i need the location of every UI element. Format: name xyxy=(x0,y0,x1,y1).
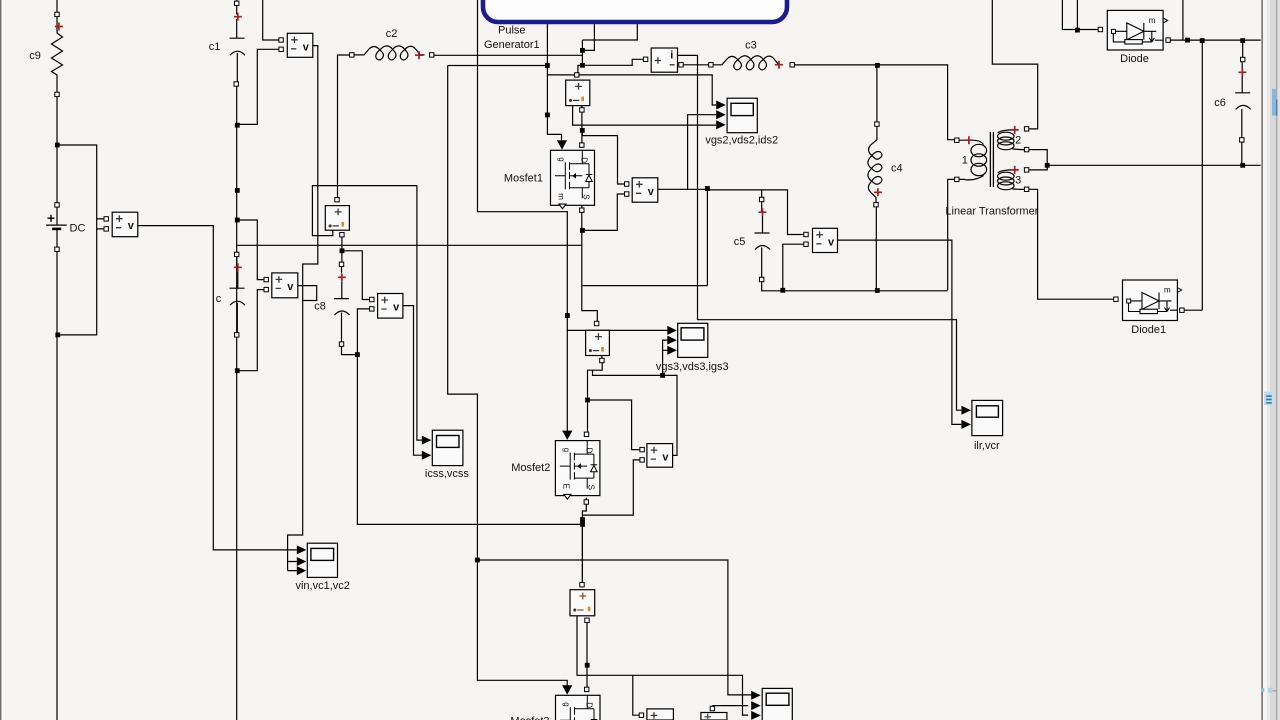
svg-text:c2: c2 xyxy=(386,28,398,40)
wire c9 to DC xyxy=(56,97,58,203)
svg-text:Diode: Diode xyxy=(1120,53,1149,65)
Mosfet2 box xyxy=(555,441,600,496)
svg-text:E: E xyxy=(561,484,570,489)
svg-text:g: g xyxy=(562,448,571,452)
inductor c4 vertical xyxy=(868,126,882,202)
voltmeter c8 box xyxy=(378,294,403,319)
svg-text:v: v xyxy=(128,220,135,232)
wire c voltmeter - loop xyxy=(237,290,264,371)
svg-text:icss,vcss: icss,vcss xyxy=(425,468,470,480)
svg-text:c3: c3 xyxy=(745,39,757,51)
wire top to c1 voltmeter + xyxy=(263,0,279,40)
wire x=447.7 down jog to 477.4 xyxy=(448,66,568,687)
svg-text:ilr,vcr: ilr,vcr xyxy=(974,440,1000,452)
svg-text:c8: c8 xyxy=(314,301,326,313)
wire vds2 vm - loop xyxy=(582,194,624,230)
capacitor c6 plates xyxy=(1235,93,1251,110)
c8 column below icss block xyxy=(341,237,343,262)
wire c6 column xyxy=(1241,41,1244,166)
svg-text:Linear Transformer: Linear Transformer xyxy=(945,206,1038,218)
svg-text:S: S xyxy=(586,485,595,490)
input arrows: scopes xyxy=(716,101,726,110)
wire c5 vm out to ilr in2 xyxy=(838,240,962,424)
bottom + meas block box xyxy=(570,590,595,616)
wire y=74.9 gate rail to vgs2 scope in1 xyxy=(547,75,716,105)
wire x=477.5 m-line from top xyxy=(478,0,568,431)
wire y=330.4 to vgs3 scope in1 xyxy=(567,329,669,331)
wire c4 bottom to rail xyxy=(875,207,877,291)
voltmeter glyphs: + - v (DC,c1,c,c8,c5,vds2,vds3,bottom) xyxy=(116,215,135,232)
column x=582.4 upper xyxy=(581,40,583,65)
svg-text:m: m xyxy=(557,193,566,200)
inductor c3 xyxy=(713,56,779,70)
svg-text:v: v xyxy=(393,302,400,314)
svg-text:c5: c5 xyxy=(734,236,746,248)
voltmeter c box xyxy=(272,273,298,298)
wire c1 top stub xyxy=(236,0,238,15)
wire c8 vm - loop xyxy=(357,309,582,525)
svg-text:c9: c9 xyxy=(29,50,41,62)
wire dot130 jog to vds2 vm + xyxy=(582,130,624,184)
svg-text:Mosfet2: Mosfet2 xyxy=(511,462,550,474)
transformer core xyxy=(990,132,993,187)
scope vgs2,vds2,ids2 xyxy=(727,98,757,133)
svg-text:m: m xyxy=(1164,286,1171,295)
svg-text:2: 2 xyxy=(1015,134,1021,146)
+- measurement blocks glyphs xyxy=(570,83,582,101)
svg-text:c6: c6 xyxy=(1214,97,1226,109)
inductor c2 xyxy=(338,54,350,57)
svg-text:Mosfet3: Mosfet3 xyxy=(510,716,549,720)
svg-text:g: g xyxy=(557,157,566,161)
wire bottom block top port column xyxy=(581,520,583,583)
wire w3 bottom to Diode1 xyxy=(1029,189,1114,299)
igs3 block bottom port path to M2 D xyxy=(588,356,603,433)
wire dot65 jog to vgs2 block top port xyxy=(578,65,583,72)
mosfet gate arrows (down) xyxy=(557,140,567,149)
scope Mosfet3 (bottom, clipped) xyxy=(762,688,792,720)
svg-text:3: 3 xyxy=(1015,174,1021,186)
svg-text:i: i xyxy=(670,50,673,62)
right scrollbar xyxy=(1261,0,1280,720)
wire c8 bottom jog xyxy=(342,346,358,354)
svg-text:c: c xyxy=(216,293,222,305)
svg-text:Pulse: Pulse xyxy=(498,24,526,36)
Diode1 box xyxy=(1123,280,1178,321)
mosfet1 S column xyxy=(582,147,598,321)
svg-text:v: v xyxy=(828,236,835,248)
DC source symbol xyxy=(46,225,66,229)
wire x=707.4 down and c5 feed xyxy=(707,189,804,286)
wire c node to c voltmeter + xyxy=(237,220,264,280)
wire center tap rail to right xyxy=(1047,164,1261,166)
wire stubs to DC voltmeter ports xyxy=(97,219,104,229)
svg-text:vgs3,vds3,igs3: vgs3,vds3,igs3 xyxy=(656,361,729,373)
wire c1 voltmeter output down to vin scope in2 xyxy=(288,46,318,571)
wire branch to bottom voltmeter xyxy=(633,675,639,715)
vgs2 meas block box xyxy=(566,80,590,106)
icss block loop to icss in1 xyxy=(312,186,421,441)
bottom small block xyxy=(701,713,727,720)
resistor c9 xyxy=(52,17,63,93)
transformer w1 coil xyxy=(959,140,984,144)
i-line from i-block to ilr in1 xyxy=(678,55,962,410)
Mosfet1 box xyxy=(551,150,595,205)
svg-text:D: D xyxy=(585,702,594,708)
wire c5 bottom rail xyxy=(762,282,948,291)
wire M3 scope in2 from below xyxy=(712,705,748,708)
voltmeter DC (vin) box xyxy=(112,212,138,237)
pulse gen gate wire xyxy=(547,23,561,141)
svg-text:Diode1: Diode1 xyxy=(1131,324,1166,336)
wire c1 bottom xyxy=(236,86,238,720)
wire Diode left feeds xyxy=(1062,0,1098,30)
Diode box xyxy=(1107,10,1163,50)
mosfet1 internals xyxy=(555,150,592,209)
svg-text:S: S xyxy=(582,194,591,199)
wire c8 vm + feed xyxy=(342,251,370,300)
svg-text:D: D xyxy=(584,448,593,454)
wire bottom block bottom port to M3 D xyxy=(586,623,588,688)
Pulse Generator1 block (rounded, thick navy border) xyxy=(483,0,787,22)
wire y=285.6 xyxy=(582,285,707,287)
wire pulse tap y=40 xyxy=(582,23,637,40)
capacitor c5 xyxy=(755,202,771,278)
transformer w3 coil xyxy=(998,170,1012,173)
voltmeter c5 box xyxy=(813,228,838,252)
wire w2 bottom to center tap xyxy=(1029,150,1047,166)
voltmeter c1 box xyxy=(287,33,313,57)
wire y=560 to Mosfet3 scope in1 xyxy=(477,560,752,695)
wire DC loop right xyxy=(57,145,97,720)
svg-text:v: v xyxy=(287,281,294,293)
wire c5 vm - xyxy=(783,244,804,290)
svg-text:v: v xyxy=(648,186,655,198)
svg-text:m: m xyxy=(1149,16,1156,25)
transformer w2 coil xyxy=(998,130,1012,133)
DC + sign (black) xyxy=(48,215,55,222)
capacitor c8 xyxy=(334,267,350,342)
wire w1 bottom to rail corner xyxy=(948,179,955,290)
vgs2 block bottom exit to scope in3 xyxy=(573,106,717,126)
bottom voltmeter box xyxy=(647,709,674,720)
wire vds2 vm output to scope in2 and branch xyxy=(658,115,716,190)
svg-text:c4: c4 xyxy=(891,163,903,175)
current meas i block box xyxy=(651,48,677,72)
svg-text:c1: c1 xyxy=(209,41,221,53)
wire c4 top tap xyxy=(876,65,878,122)
svg-text:Mosfet1: Mosfet1 xyxy=(504,172,543,184)
wire vds3 vm out up-around xyxy=(593,340,678,455)
wire vds3 vm - loop xyxy=(582,460,639,515)
scope ilr,vcr xyxy=(972,400,1003,435)
svg-text:vgs2,vds2,ids2: vgs2,vds2,ids2 xyxy=(705,134,778,146)
wire c voltmeter output xyxy=(298,286,317,301)
wire c2 right to column 582 xyxy=(434,54,582,56)
igs3 meas block box xyxy=(586,330,610,355)
capacitor c xyxy=(230,257,246,333)
wire i-block - out to c3 xyxy=(683,64,709,66)
diode internals (Diode) xyxy=(1112,16,1168,44)
wire Diode1 out up to rail xyxy=(1184,41,1202,311)
scope vin,vc1,vc2 xyxy=(307,543,337,577)
svg-text:DC: DC xyxy=(70,223,86,235)
wire DC voltmeter output to vin scope in1 xyxy=(138,226,297,550)
svg-text:vin,vc1,vc2: vin,vc1,vc2 xyxy=(295,580,349,592)
wire y=65.3 to i-block + xyxy=(582,59,643,65)
svg-text:Generator1: Generator1 xyxy=(484,39,540,51)
wire M2 S down chain xyxy=(582,498,586,588)
current meas icss block box xyxy=(325,206,349,231)
Mosfet3 box (clipped at bottom) xyxy=(556,695,601,720)
i-block glyphs xyxy=(655,50,675,65)
svg-text:1: 1 xyxy=(962,155,968,167)
canvas left edge xyxy=(0,0,2,720)
wire c2 left down to icss block xyxy=(337,56,339,198)
svg-text:D: D xyxy=(580,157,589,163)
voltmeter vds2 box xyxy=(632,178,658,202)
wire y=65.5 xyxy=(448,65,548,67)
wire pulse tap y=50.4 xyxy=(582,23,594,50)
wire w3 top to center tap xyxy=(1029,165,1047,170)
wire c9 top stub xyxy=(56,0,58,12)
diode internals (Diode1) xyxy=(1127,286,1182,314)
wire c5 top tap xyxy=(761,190,763,197)
capacitor c1 xyxy=(230,19,246,55)
wire c8 vm out to icss in2 xyxy=(403,306,422,456)
wire y=400 to vds3 vm + xyxy=(588,400,640,450)
voltmeter vds3 box xyxy=(647,444,673,468)
svg-text:v: v xyxy=(662,452,669,464)
wire w2 top up and over xyxy=(992,0,1037,129)
svg-text:g: g xyxy=(562,702,571,706)
svg-text:v: v xyxy=(303,41,310,53)
column x=582 vgs2block to mosfet1 xyxy=(581,106,583,143)
wire c3 right to transformer w1 xyxy=(794,65,954,140)
wire c1 voltmeter - loop xyxy=(237,49,279,124)
wire Diode right to c6 xyxy=(1170,0,1260,40)
wire long rail y=245.3 xyxy=(237,244,582,246)
scope icss,vcss xyxy=(432,430,463,465)
wire bottom block left exit to M3 scope in3 xyxy=(577,616,748,715)
scope vgs3,vds3,igs3 xyxy=(678,323,708,357)
